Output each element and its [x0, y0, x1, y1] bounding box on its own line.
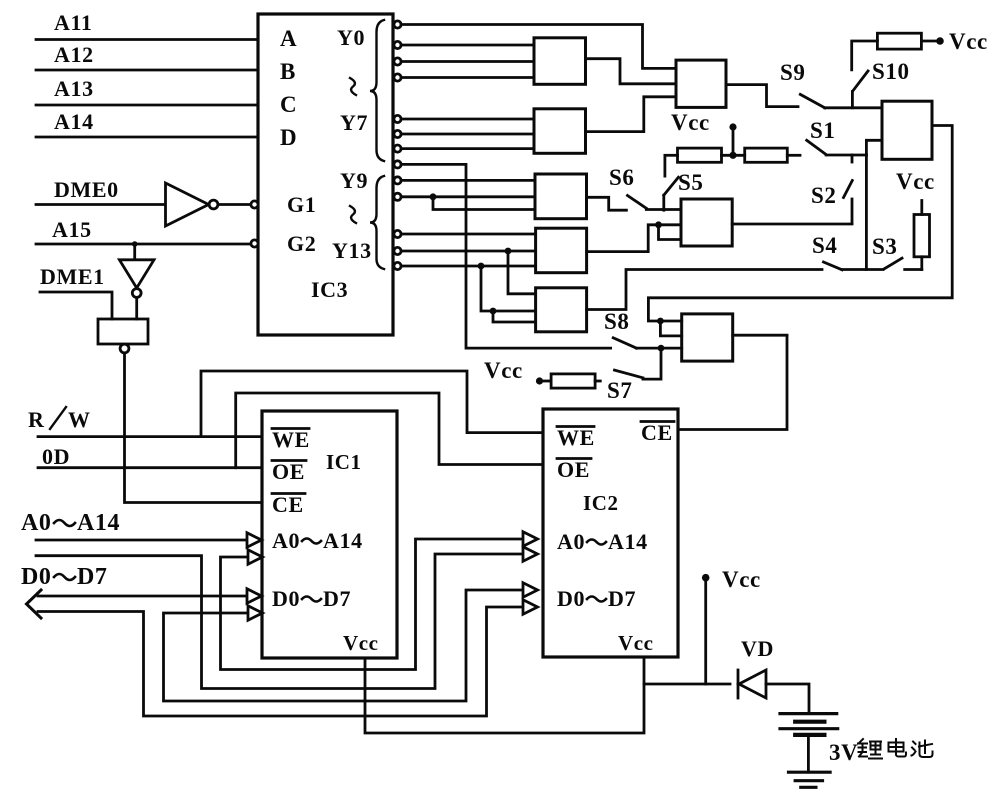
- switch S4: [812, 233, 842, 270]
- wire pin10 to gate B: [401, 195, 535, 198]
- wire IC2 Vcc to diode: [644, 683, 730, 686]
- svg-text:IC3: IC3: [311, 277, 348, 302]
- svg-text:3V: 3V: [829, 740, 858, 765]
- svg-text:S7: S7: [607, 378, 633, 403]
- gate E: [682, 314, 733, 361]
- wire selector output down to IC1 CE: [125, 353, 263, 503]
- gate G1: [534, 38, 586, 85]
- svg-text:VD: VD: [741, 636, 774, 661]
- svg-text:Vcc: Vcc: [343, 631, 379, 655]
- IC3 pin G1 circle: [251, 201, 258, 208]
- wire A0-A14 bus to IC1 with arrowhead: [36, 539, 247, 542]
- svg-text:WE: WE: [272, 427, 310, 452]
- wire A14 to IC3 pin D: [36, 136, 258, 139]
- resistor R2: [665, 148, 745, 162]
- tilde between Y0 and Y7: [350, 78, 356, 95]
- brace Y9-Y13: [370, 176, 384, 269]
- svg-text:S6: S6: [609, 165, 635, 190]
- resistor R1 (S7 pullup): [540, 374, 601, 388]
- wire S4 to S3: [842, 268, 883, 271]
- switch S1: [807, 118, 836, 155]
- svg-text:A11: A11: [54, 10, 92, 35]
- svg-text:G2: G2: [287, 231, 316, 256]
- decoder IC3: [251, 14, 393, 335]
- svg-text:Vcc: Vcc: [722, 567, 761, 592]
- wire inverter to selector box: [135, 298, 138, 320]
- wire A15 to IC3 pin G2: [36, 243, 251, 246]
- wire pin8 down and right to switch S8: [401, 164, 611, 348]
- wire 0D to IC1 OE: [38, 466, 262, 469]
- svg-text:W: W: [68, 407, 91, 432]
- gate C: [536, 228, 587, 273]
- wire D-bus loop IC1 to IC2: [164, 590, 524, 701]
- svg-text:WE: WE: [557, 425, 595, 450]
- battery 3V: [780, 714, 838, 735]
- wire S8 to gate E input3: [636, 347, 681, 350]
- wire pin11 to gate C: [401, 233, 536, 236]
- gate B: [535, 174, 587, 219]
- resistor R5 (vertical): [914, 201, 930, 270]
- svg-text:D0: D0: [21, 564, 52, 590]
- svg-text:A0: A0: [557, 529, 585, 554]
- svg-text:IC2: IC2: [583, 491, 619, 515]
- junction Vcc tap: [729, 152, 736, 159]
- gate F2: [676, 60, 726, 107]
- wire IC2 CE to gate E output: [678, 336, 787, 430]
- svg-text:S1: S1: [810, 118, 836, 143]
- svg-text:S9: S9: [780, 60, 806, 85]
- wire A0-A14 lower bus wrapping to IC2: [36, 554, 523, 689]
- wire junction down to S4 line: [865, 155, 868, 270]
- wire pin12 to gate C: [401, 250, 536, 253]
- svg-text:A14: A14: [77, 510, 120, 536]
- switch S10: [852, 41, 910, 108]
- wire inverter output to G1: [218, 203, 250, 206]
- svg-text:D: D: [280, 125, 297, 150]
- svg-text:G1: G1: [287, 192, 316, 217]
- svg-text:A13: A13: [54, 76, 94, 101]
- svg-text:CE: CE: [272, 492, 304, 517]
- wire F2 output to switch S9: [726, 85, 798, 107]
- wire S3 stub to resistor R5: [905, 268, 922, 271]
- svg-text:A14: A14: [54, 109, 94, 134]
- brace Y0-Y7: [370, 20, 384, 161]
- wire gate C output to gate H inputs: [587, 225, 681, 252]
- switch S9: [780, 60, 825, 108]
- wire pin9 to gate B: [401, 179, 535, 182]
- wire DME0 to inverter: [36, 203, 165, 206]
- IC3 output pin circles Y0..Y13: [394, 21, 401, 270]
- wire A12 to IC3 pin B: [36, 69, 258, 72]
- wire pin2 to gate G1: [401, 44, 534, 47]
- wire S1 to junction: [826, 154, 866, 157]
- junction on D input2 wire: [490, 308, 497, 315]
- svg-text:A12: A12: [54, 42, 94, 67]
- wire pin10 branch to gate B input3: [433, 197, 535, 210]
- inverter U5 (A15, pointing down): [119, 260, 154, 298]
- svg-text:A0: A0: [272, 528, 300, 553]
- wire pin3 to gate G1: [401, 60, 534, 63]
- wire D bus top line to IC1: [38, 595, 247, 598]
- wire R/W branch to IC2 WE: [201, 371, 543, 437]
- wire resistor to Vcc dot: [921, 40, 936, 43]
- wire gate H output to S2: [732, 223, 852, 226]
- node Vcc (bottom): [702, 567, 761, 684]
- svg-text:DME1: DME1: [40, 264, 105, 289]
- ground: [789, 772, 831, 787]
- svg-text:Vcc: Vcc: [671, 110, 710, 135]
- svg-text:Y7: Y7: [340, 110, 368, 135]
- svg-text:D7: D7: [608, 586, 636, 611]
- SRAM IC2: [543, 409, 678, 657]
- wire gate E output to IC2 CE: [733, 334, 787, 337]
- svg-text:OE: OE: [557, 457, 590, 482]
- svg-text:Vcc: Vcc: [484, 358, 523, 383]
- svg-text:S3: S3: [872, 234, 898, 259]
- wire pin12 branch to gate D input1: [508, 251, 536, 294]
- svg-text:A15: A15: [52, 217, 92, 242]
- svg-text:B: B: [280, 59, 296, 84]
- inverter U4 (DME0): [166, 183, 218, 226]
- svg-text:S8: S8: [604, 309, 630, 334]
- diode VD: [738, 636, 774, 698]
- resistor R3: [745, 148, 800, 162]
- svg-text:IC1: IC1: [326, 450, 362, 474]
- wire G2 output to gate F2 input3: [586, 97, 677, 132]
- svg-text:A: A: [280, 26, 297, 51]
- svg-text:R: R: [28, 407, 45, 432]
- wire G1 output to gate F2 input2: [586, 59, 677, 84]
- wire gate B output to switch S6: [587, 197, 627, 210]
- junction pin13 branch: [478, 263, 485, 270]
- svg-text:Y13: Y13: [332, 238, 372, 263]
- wire branch to gate D input3: [493, 311, 536, 322]
- wire 0D branch to IC2 OE: [236, 393, 543, 468]
- svg-text:Vcc: Vcc: [618, 631, 654, 655]
- wire diode to battery: [766, 684, 809, 712]
- IC3 pin G2 circle: [251, 240, 258, 247]
- node A0~A14 bus label: [21, 510, 120, 536]
- svg-text:A14: A14: [323, 528, 363, 553]
- wire Vcc net IC1 to IC2: [365, 657, 644, 733]
- wire pin13 branch to gate D input2: [481, 266, 536, 311]
- SRAM IC1: [262, 411, 397, 658]
- wire pin5 to gate G2: [401, 118, 534, 121]
- svg-text:D7: D7: [77, 564, 108, 590]
- bidirectional D bus left arrowhead: [27, 590, 42, 618]
- node D0~D7 bus label: [21, 564, 108, 590]
- junction pin12 branch: [505, 248, 512, 255]
- svg-text:Vcc: Vcc: [896, 169, 935, 194]
- wire A13 to IC3 pin C: [36, 104, 258, 107]
- svg-text:OE: OE: [272, 459, 305, 484]
- wire D bus lower line wrapping to IC2: [38, 607, 523, 716]
- wire A15 branch down to inverter: [133, 244, 136, 260]
- switch S2: [811, 155, 852, 224]
- junction on A15: [132, 241, 138, 247]
- gate F: [882, 101, 932, 159]
- svg-text:D0: D0: [272, 586, 300, 611]
- switch S5: [664, 156, 704, 210]
- svg-text:C: C: [280, 92, 297, 117]
- junction pin10 branch: [430, 193, 437, 200]
- switch S7: [607, 370, 643, 403]
- wire DME1 to selector box: [40, 292, 112, 319]
- svg-text:CE: CE: [641, 420, 673, 445]
- wire gate D output to S4 line: [587, 270, 822, 310]
- wire S9 to gate F input1: [825, 106, 882, 109]
- svg-text:S2: S2: [811, 183, 837, 208]
- switch S8: [604, 309, 636, 348]
- resistor R4 (S10 pullup): [877, 33, 921, 49]
- svg-text:A14: A14: [608, 529, 648, 554]
- wire pin7 to gate G2: [401, 147, 534, 150]
- switch S3: [872, 234, 902, 269]
- gate D: [536, 288, 587, 332]
- wire S6 to gate H input1: [646, 208, 681, 211]
- svg-text:Y9: Y9: [340, 168, 368, 193]
- svg-text:D0: D0: [557, 586, 585, 611]
- svg-text:S4: S4: [812, 233, 838, 258]
- wire to Vcc terminal: [732, 129, 735, 155]
- svg-text:S10: S10: [872, 59, 910, 84]
- svg-text:S5: S5: [678, 170, 704, 195]
- wire pin4 to gate G1: [401, 76, 534, 79]
- node R/W label: [28, 407, 91, 432]
- gate G2: [534, 109, 586, 154]
- wire Y0 (pin1) to gate F2 input1: [401, 25, 676, 69]
- gate U6 (DME1 box): [98, 319, 148, 353]
- wire A-bus loop IC1 to IC2: [221, 539, 524, 670]
- svg-text:0D: 0D: [42, 444, 70, 469]
- wire gate F output loop to gate E inputs: [648, 126, 952, 322]
- svg-text:Vcc: Vcc: [949, 29, 988, 54]
- wire step up to gate F input2: [866, 140, 882, 155]
- wire battery to ground: [807, 735, 810, 772]
- wire pin13 to gate C: [401, 265, 536, 268]
- tilde between Y9 and Y13: [350, 206, 356, 223]
- svg-text:D7: D7: [323, 586, 351, 611]
- wire junction down to S7: [643, 348, 661, 379]
- svg-text:Y0: Y0: [337, 25, 365, 50]
- svg-text:A0: A0: [21, 510, 52, 536]
- wire pin6 to gate G2: [401, 133, 534, 136]
- svg-text:DME0: DME0: [54, 177, 119, 202]
- switch S6: [609, 165, 646, 208]
- wire A11 to IC3 pin A: [36, 38, 258, 41]
- gate H: [681, 199, 732, 246]
- wire R/W to IC1 WE: [38, 435, 262, 438]
